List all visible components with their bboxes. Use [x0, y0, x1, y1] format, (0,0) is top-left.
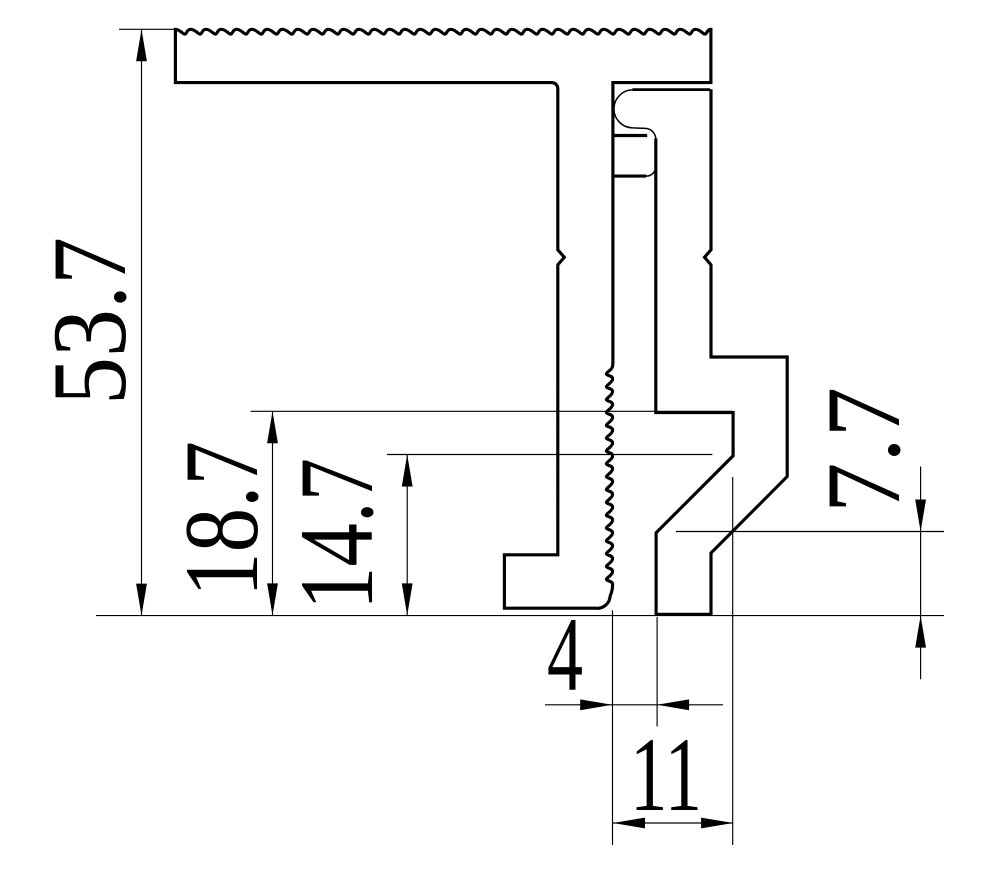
- svg-text:18.7: 18.7: [163, 441, 280, 597]
- svg-text:4: 4: [547, 596, 583, 713]
- svg-text:14.7: 14.7: [278, 458, 395, 610]
- svg-text:11: 11: [630, 716, 702, 833]
- svg-text:7.7: 7.7: [805, 387, 922, 513]
- svg-text:53.7: 53.7: [31, 237, 148, 405]
